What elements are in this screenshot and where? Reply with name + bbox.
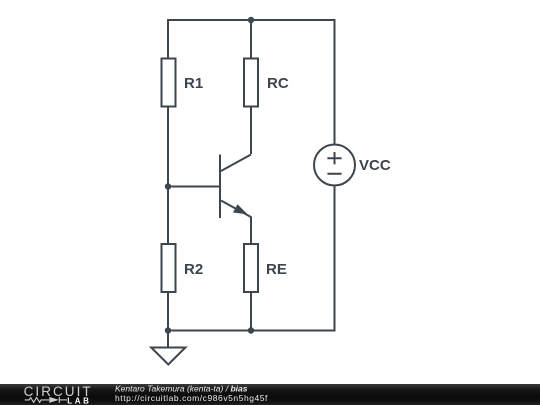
svg-text:LAB: LAB <box>67 396 91 405</box>
svg-text:http://circuitlab.com/c986v5n5: http://circuitlab.com/c986v5n5hg45f <box>115 393 268 403</box>
svg-text:RC: RC <box>267 75 289 92</box>
svg-text:Kentaro Takemura (kenta-ta) /: Kentaro Takemura (kenta-ta) / bias <box>115 384 248 393</box>
svg-text:VCC: VCC <box>359 157 391 174</box>
svg-text:RE: RE <box>266 261 287 278</box>
svg-text:R1: R1 <box>184 75 203 92</box>
svg-text:R2: R2 <box>184 261 203 278</box>
